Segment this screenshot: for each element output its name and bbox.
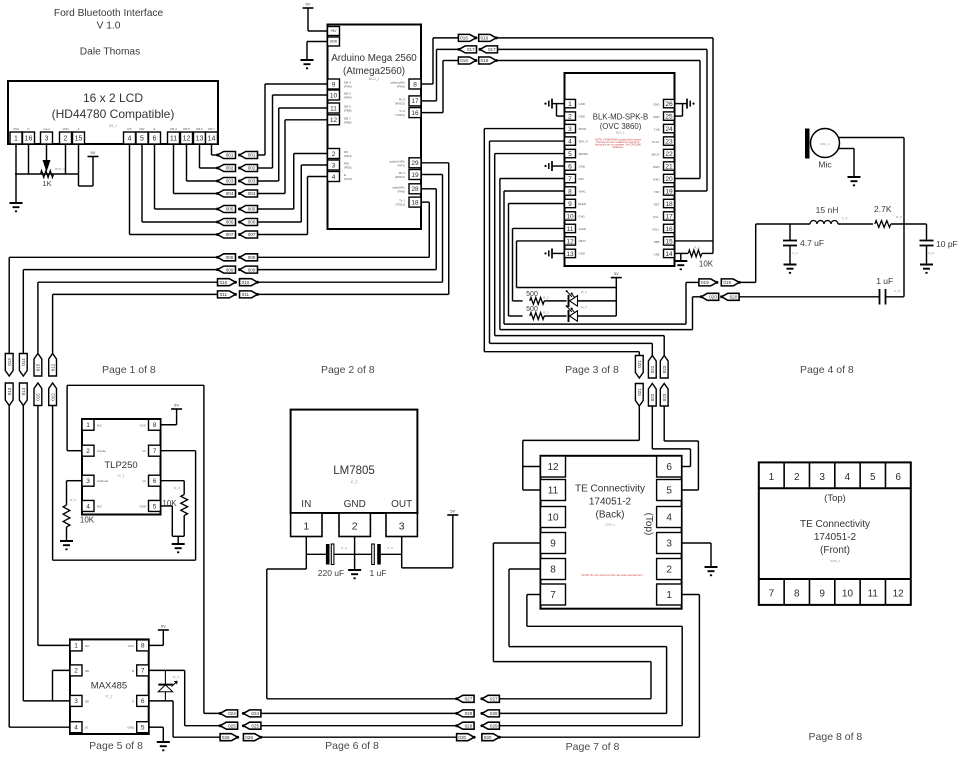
svg-text:9: 9	[819, 589, 825, 600]
svg-text:16: 16	[665, 226, 673, 233]
svg-text:Page 5 of 8: Page 5 of 8	[89, 740, 143, 752]
svg-text:19: 19	[411, 172, 419, 179]
svg-text:017: 017	[488, 47, 496, 52]
svg-text:SPK_P: SPK_P	[579, 139, 588, 143]
svg-text:028: 028	[490, 711, 498, 716]
svg-text:024: 024	[251, 711, 259, 716]
svg-text:24: 24	[665, 126, 673, 133]
svg-text:(PE5): (PE5)	[344, 166, 352, 170]
svg-text:DE: DE	[85, 699, 89, 703]
svg-text:Vo: Vo	[142, 449, 146, 453]
svg-text:12: 12	[183, 136, 191, 143]
svg-text:Dale Thomas: Dale Thomas	[80, 47, 140, 58]
svg-text:GND: GND	[653, 103, 659, 107]
svg-text:BLK-MD-SPK-B: BLK-MD-SPK-B	[593, 113, 648, 122]
svg-text:(RXD2): (RXD2)	[395, 101, 405, 105]
svg-text:25: 25	[665, 113, 673, 120]
svg-text:2: 2	[568, 113, 572, 120]
svg-text:7: 7	[550, 590, 556, 601]
svg-text:(PB6): (PB6)	[344, 120, 352, 124]
svg-text:008: 008	[248, 255, 256, 260]
svg-text:18: 18	[665, 201, 673, 208]
svg-text:Ford Bluetooth Interface: Ford Bluetooth Interface	[54, 8, 164, 19]
svg-text:2: 2	[352, 521, 358, 533]
svg-text:DI: DI	[85, 726, 88, 730]
svg-text:005: 005	[248, 207, 256, 212]
svg-text:5: 5	[141, 725, 145, 732]
svg-text:USB: USB	[654, 252, 660, 256]
svg-text:(TXD2): (TXD2)	[395, 113, 405, 117]
svg-text:3: 3	[45, 136, 49, 143]
svg-text:OUT: OUT	[391, 499, 412, 510]
svg-text:5: 5	[666, 486, 672, 497]
svg-text:16: 16	[25, 136, 33, 143]
svg-text:Cathode: Cathode	[97, 479, 109, 483]
svg-text:D_1: D_1	[581, 290, 587, 294]
svg-text:17: 17	[665, 213, 673, 220]
svg-text:013: 013	[7, 358, 12, 366]
svg-text:2: 2	[86, 448, 90, 455]
svg-text:(Front): (Front)	[820, 545, 850, 556]
svg-text:8: 8	[141, 643, 145, 650]
svg-text:(Atmega2560): (Atmega2560)	[343, 66, 405, 77]
svg-text:025: 025	[251, 723, 259, 728]
svg-text:5: 5	[870, 472, 876, 483]
svg-text:DS_1: DS_1	[109, 124, 117, 128]
svg-text:IC_2: IC_2	[106, 695, 113, 699]
svg-text:SPKR: SPKR	[579, 127, 587, 131]
svg-text:028: 028	[465, 711, 473, 716]
svg-text:002: 002	[226, 166, 234, 171]
svg-text:B: B	[132, 669, 134, 673]
svg-text:002: 002	[248, 166, 256, 171]
svg-text:3: 3	[666, 539, 672, 550]
svg-text:5V: 5V	[450, 509, 455, 514]
svg-text:VDD: VDD	[62, 127, 69, 131]
svg-text:4: 4	[128, 136, 132, 143]
svg-text:011: 011	[220, 292, 228, 297]
svg-text:12: 12	[566, 238, 574, 245]
svg-text:Cont: Cont	[43, 127, 50, 131]
svg-text:Page 2 of 8: Page 2 of 8	[321, 364, 375, 376]
svg-text:(PA6): (PA6)	[398, 189, 405, 193]
svg-text:29: 29	[411, 160, 419, 167]
svg-text:003: 003	[226, 179, 234, 184]
svg-text:4: 4	[332, 174, 336, 181]
svg-text:DB 6: DB 6	[196, 127, 203, 131]
svg-text:8: 8	[413, 81, 417, 88]
svg-text:GND: GND	[579, 102, 585, 106]
svg-text:L_1: L_1	[842, 216, 847, 220]
svg-text:(TXD1): (TXD1)	[395, 203, 405, 207]
svg-text:7: 7	[769, 589, 775, 600]
svg-text:1K: 1K	[42, 179, 51, 188]
svg-text:5V: 5V	[91, 150, 96, 155]
svg-text:500: 500	[526, 306, 538, 313]
svg-text:005: 005	[226, 207, 234, 212]
svg-text:7: 7	[141, 668, 145, 675]
svg-text:17: 17	[411, 98, 419, 105]
svg-text:R_3: R_3	[694, 246, 700, 250]
svg-text:5V: 5V	[174, 403, 179, 408]
svg-text:220 uF: 220 uF	[318, 568, 344, 578]
svg-text:RE: RE	[85, 669, 89, 673]
svg-text:004: 004	[226, 191, 234, 196]
svg-text:027: 027	[490, 697, 498, 702]
svg-text:BACK: BACK	[652, 153, 660, 157]
svg-text:023: 023	[662, 365, 667, 373]
svg-text:6: 6	[895, 472, 901, 483]
svg-text:2: 2	[794, 472, 800, 483]
svg-text:029: 029	[465, 723, 473, 728]
svg-text:3: 3	[399, 521, 405, 533]
svg-text:VBAT: VBAT	[579, 239, 587, 243]
svg-text:22: 22	[665, 151, 673, 158]
svg-text:001: 001	[226, 153, 234, 158]
svg-text:Arduino Mega 2560: Arduino Mega 2560	[331, 53, 417, 64]
svg-text:26: 26	[665, 101, 673, 108]
svg-text:500: 500	[526, 291, 538, 298]
svg-text:006: 006	[226, 220, 234, 225]
svg-text:3: 3	[86, 478, 90, 485]
svg-text:BLED: BLED	[579, 202, 587, 206]
svg-text:VOL+: VOL+	[652, 227, 660, 231]
svg-text:MIC: MIC	[579, 177, 584, 181]
svg-text:9: 9	[550, 539, 556, 550]
svg-text:1 uF: 1 uF	[369, 568, 386, 578]
svg-text:(PH6): (PH6)	[344, 85, 352, 89]
svg-text:1: 1	[86, 422, 90, 429]
svg-text:GND: GND	[139, 504, 147, 508]
svg-text:10K: 10K	[699, 260, 714, 269]
svg-text:RW: RW	[140, 127, 145, 131]
svg-text:19: 19	[665, 188, 673, 195]
svg-text:030: 030	[484, 735, 492, 740]
svg-text:(Top): (Top)	[643, 513, 654, 536]
svg-text:13: 13	[196, 136, 204, 143]
svg-text:012: 012	[50, 363, 55, 371]
svg-text:(RXD1): (RXD1)	[395, 175, 405, 179]
svg-text:14: 14	[208, 136, 216, 143]
svg-text:015: 015	[36, 363, 41, 371]
svg-text:28: 28	[411, 186, 419, 193]
svg-text:5: 5	[140, 136, 144, 143]
svg-text:RO: RO	[85, 644, 90, 648]
svg-text:C_1: C_1	[792, 251, 798, 255]
svg-text:VOL-: VOL-	[653, 215, 660, 219]
svg-text:K: K	[27, 127, 29, 131]
svg-text:009: 009	[226, 267, 234, 272]
svg-text:datasheet.: datasheet.	[612, 146, 624, 149]
svg-text:001: 001	[248, 153, 256, 158]
svg-text:1: 1	[769, 472, 775, 483]
svg-text:CHG: CHG	[579, 214, 586, 218]
svg-text:3: 3	[74, 698, 78, 705]
svg-text:IC_1: IC_1	[118, 474, 125, 478]
svg-text:1: 1	[74, 643, 78, 650]
svg-text:10 pF: 10 pF	[936, 239, 958, 249]
svg-text:006: 006	[248, 220, 256, 225]
svg-text:C_3: C_3	[894, 289, 900, 293]
svg-text:026: 026	[245, 735, 253, 740]
svg-text:(Top): (Top)	[824, 493, 846, 504]
svg-text:20: 20	[665, 176, 673, 183]
svg-text:NOTE: Do not connect to the re: NOTE: Do not connect to the rear seat en…	[582, 573, 643, 577]
svg-text:014: 014	[21, 358, 26, 366]
svg-text:21: 21	[665, 163, 673, 170]
svg-text:10K: 10K	[80, 516, 95, 525]
svg-text:174051-2: 174051-2	[589, 497, 632, 508]
svg-text:(PB4): (PB4)	[344, 96, 352, 100]
svg-text:025: 025	[228, 723, 236, 728]
svg-text:(HD44780 Compatible): (HD44780 Compatible)	[52, 107, 175, 121]
svg-text:012: 012	[50, 393, 55, 401]
svg-text:6: 6	[666, 462, 672, 473]
svg-text:7: 7	[568, 176, 572, 183]
svg-text:VSS: VSS	[13, 127, 19, 131]
svg-text:Page 7 of 8: Page 7 of 8	[566, 741, 620, 753]
svg-text:2: 2	[74, 668, 78, 675]
svg-text:016: 016	[481, 36, 489, 41]
svg-text:LM7805: LM7805	[333, 465, 375, 477]
svg-text:10: 10	[547, 513, 559, 524]
svg-text:GND: GND	[330, 40, 338, 44]
svg-text:10: 10	[330, 92, 338, 99]
svg-text:CON_1: CON_1	[605, 523, 615, 527]
svg-text:NFB: NFB	[654, 240, 660, 244]
svg-text:MIC_1: MIC_1	[821, 142, 830, 146]
svg-text:8: 8	[550, 565, 556, 576]
svg-text:R_1: R_1	[543, 296, 549, 300]
svg-text:MCU_1: MCU_1	[369, 77, 380, 81]
svg-text:1: 1	[303, 521, 309, 533]
svg-text:8: 8	[794, 589, 800, 600]
svg-text:1: 1	[666, 590, 672, 601]
svg-text:024: 024	[228, 711, 236, 716]
svg-text:FWD: FWD	[653, 165, 660, 169]
svg-text:15: 15	[75, 136, 83, 143]
svg-text:017: 017	[467, 47, 475, 52]
svg-text:15: 15	[665, 238, 673, 245]
svg-text:030: 030	[458, 735, 466, 740]
svg-text:4.7 uF: 4.7 uF	[800, 238, 824, 248]
svg-text:(PH5): (PH5)	[397, 85, 405, 89]
svg-text:3: 3	[332, 162, 336, 169]
svg-text:013: 013	[7, 387, 12, 395]
svg-text:R_6: R_6	[896, 215, 902, 219]
svg-text:Page 8 of 8: Page 8 of 8	[809, 731, 863, 743]
svg-text:POT_1: POT_1	[55, 167, 65, 171]
svg-text:11: 11	[170, 136, 177, 143]
svg-text:009: 009	[248, 267, 256, 272]
svg-text:6: 6	[568, 163, 572, 170]
svg-text:6: 6	[153, 136, 157, 143]
svg-text:9: 9	[332, 81, 336, 88]
svg-text:2: 2	[332, 151, 336, 158]
svg-text:R_4: R_4	[174, 486, 180, 490]
svg-text:R_5: R_5	[70, 498, 76, 502]
svg-text:TXD: TXD	[654, 190, 660, 194]
svg-text:A: A	[77, 127, 79, 131]
svg-text:TLP250: TLP250	[104, 460, 137, 471]
svg-text:TE Connectivity: TE Connectivity	[575, 484, 645, 495]
svg-text:3: 3	[819, 472, 825, 483]
svg-text:GND: GND	[579, 252, 585, 256]
svg-text:DB 4: DB 4	[170, 127, 177, 131]
svg-text:(PB5): (PB5)	[344, 109, 352, 113]
svg-text:N/C: N/C	[97, 423, 103, 427]
svg-text:18: 18	[411, 199, 419, 206]
svg-text:Page 4 of 8: Page 4 of 8	[800, 364, 854, 376]
svg-text:GND: GND	[344, 499, 366, 510]
svg-text:021: 021	[637, 360, 642, 368]
svg-text:TE Connectivity: TE Connectivity	[800, 519, 870, 530]
svg-text:9: 9	[568, 201, 572, 208]
svg-text:4: 4	[86, 503, 90, 510]
svg-text:022: 022	[650, 393, 655, 401]
svg-text:14: 14	[665, 251, 673, 258]
svg-text:11: 11	[548, 486, 559, 497]
svg-text:5V: 5V	[161, 624, 166, 629]
svg-text:021: 021	[637, 388, 642, 396]
svg-text:007: 007	[248, 232, 256, 237]
svg-text:PLAY: PLAY	[652, 140, 659, 144]
svg-text:12: 12	[330, 117, 338, 124]
svg-text:3: 3	[568, 126, 572, 133]
svg-text:018: 018	[460, 58, 468, 63]
svg-text:GND: GND	[127, 726, 135, 730]
svg-text:13: 13	[566, 251, 574, 258]
svg-text:020: 020	[709, 295, 717, 300]
svg-text:1: 1	[568, 101, 572, 108]
svg-text:(PE4): (PE4)	[344, 154, 352, 158]
svg-text:014: 014	[21, 387, 26, 395]
svg-text:C_2: C_2	[928, 251, 934, 255]
svg-text:023: 023	[662, 393, 667, 401]
svg-text:VCC: VCC	[140, 423, 147, 427]
svg-text:10: 10	[566, 213, 574, 220]
svg-text:6: 6	[141, 698, 145, 705]
svg-text:018: 018	[481, 58, 489, 63]
svg-text:2: 2	[64, 136, 68, 143]
svg-text:6: 6	[153, 478, 157, 485]
svg-text:GND: GND	[579, 164, 585, 168]
svg-text:5V: 5V	[614, 271, 619, 276]
svg-text:029: 029	[490, 723, 498, 728]
svg-text:4: 4	[845, 472, 851, 483]
svg-text:015: 015	[36, 393, 41, 401]
svg-text:11: 11	[330, 105, 337, 112]
svg-text:Page 6 of 8: Page 6 of 8	[325, 740, 379, 752]
svg-text:020: 020	[730, 295, 738, 300]
svg-text:GND: GND	[579, 114, 585, 118]
svg-text:BLT_1: BLT_1	[616, 131, 625, 135]
svg-text:IC_3: IC_3	[351, 480, 358, 484]
svg-text:10: 10	[842, 589, 854, 600]
svg-text:(Back): (Back)	[596, 510, 625, 521]
svg-text:DB 5: DB 5	[183, 127, 190, 131]
svg-text:(PG5): (PG5)	[344, 177, 352, 181]
svg-text:GND: GND	[653, 115, 659, 119]
svg-text:+5V: +5V	[330, 29, 337, 33]
svg-text:SPKRF: SPKRF	[579, 152, 589, 156]
svg-text:D_3: D_3	[173, 675, 179, 679]
svg-text:026: 026	[222, 735, 230, 740]
svg-text:23: 23	[665, 138, 673, 145]
svg-text:(PA7): (PA7)	[398, 163, 405, 167]
svg-text:003: 003	[248, 179, 256, 184]
svg-text:010: 010	[242, 280, 250, 285]
svg-text:5V: 5V	[306, 2, 311, 7]
svg-text:174051-2: 174051-2	[814, 532, 857, 543]
svg-text:12: 12	[547, 462, 559, 473]
svg-text:IN: IN	[301, 499, 311, 510]
svg-text:DB 7: DB 7	[208, 127, 215, 131]
svg-text:11: 11	[868, 589, 879, 600]
svg-text:RXD: RXD	[653, 178, 659, 182]
svg-text:A: A	[132, 699, 134, 703]
svg-text:R_2: R_2	[543, 311, 549, 315]
svg-text:1: 1	[14, 136, 18, 143]
svg-text:V 1.0: V 1.0	[97, 21, 121, 32]
svg-text:008: 008	[226, 255, 234, 260]
svg-text:4: 4	[74, 725, 78, 732]
svg-text:MAX485: MAX485	[91, 681, 127, 692]
svg-text:VCC: VCC	[128, 644, 135, 648]
svg-text:019: 019	[723, 280, 731, 285]
svg-text:2: 2	[666, 565, 672, 576]
svg-text:VMIC: VMIC	[579, 189, 586, 193]
svg-text:CON_1: CON_1	[830, 559, 840, 563]
svg-text:E: E	[153, 127, 155, 131]
svg-text:16: 16	[411, 110, 419, 117]
svg-text:8: 8	[153, 422, 157, 429]
svg-text:16 x 2 LCD: 16 x 2 LCD	[83, 91, 143, 105]
svg-text:D_2: D_2	[581, 305, 587, 309]
svg-text:016: 016	[460, 36, 468, 41]
svg-text:RST: RST	[654, 202, 660, 206]
svg-text:Vo: Vo	[142, 479, 146, 483]
svg-text:5: 5	[568, 151, 572, 158]
svg-text:Anode: Anode	[97, 449, 106, 453]
svg-text:Page 1 of 8: Page 1 of 8	[102, 364, 156, 376]
svg-text:8: 8	[568, 188, 572, 195]
svg-text:4: 4	[568, 138, 572, 145]
svg-text:11: 11	[567, 226, 574, 233]
svg-text:011: 011	[242, 292, 250, 297]
svg-text:1 uF: 1 uF	[876, 276, 893, 286]
svg-text:004: 004	[248, 191, 256, 196]
svg-text:RS: RS	[127, 127, 131, 131]
svg-text:12: 12	[893, 589, 905, 600]
svg-text:C_5: C_5	[387, 546, 393, 550]
svg-text:027: 027	[465, 697, 473, 702]
svg-text:007: 007	[226, 232, 234, 237]
svg-text:022: 022	[650, 365, 655, 373]
svg-text:010: 010	[220, 280, 228, 285]
svg-text:7: 7	[153, 448, 157, 455]
svg-text:C_4: C_4	[341, 546, 347, 550]
svg-text:5: 5	[153, 503, 157, 510]
svg-text:ALED: ALED	[579, 227, 587, 231]
svg-text:N/C: N/C	[97, 504, 103, 508]
svg-text:4: 4	[666, 513, 672, 524]
svg-text:Mic: Mic	[818, 160, 832, 170]
svg-text:Page 3 of 8: Page 3 of 8	[565, 364, 619, 376]
svg-text:1VB: 1VB	[654, 128, 660, 132]
svg-text:019: 019	[701, 280, 709, 285]
svg-text:2.7K: 2.7K	[874, 204, 892, 214]
